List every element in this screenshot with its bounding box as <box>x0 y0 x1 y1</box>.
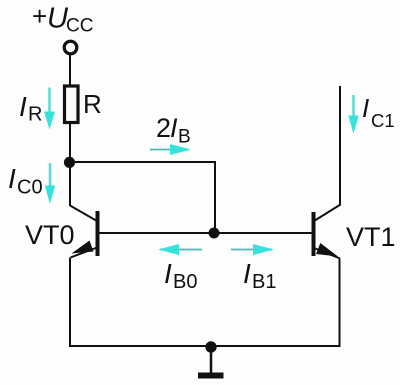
svg-text:C1: C1 <box>371 110 395 131</box>
transistor VT1 collector diagonal <box>314 205 341 222</box>
wire VT1 collector up <box>339 86 341 205</box>
supply terminal circle <box>64 41 77 54</box>
svg-text:CC: CC <box>66 16 93 37</box>
svg-text:VT1: VT1 <box>346 222 396 252</box>
label I_B1 <box>243 258 276 293</box>
resistor R <box>65 86 79 123</box>
label I_C1 <box>362 93 395 131</box>
node B junction dot (base node) <box>209 228 220 239</box>
current arrow I_R <box>44 88 55 130</box>
current arrow I_B0 <box>158 244 202 255</box>
svg-text:C0: C0 <box>17 177 43 199</box>
current arrow I_B1 <box>231 244 274 255</box>
transistor VT0 emitter arrowhead <box>72 241 94 254</box>
wire node A to base node (2Ib path) <box>70 162 215 233</box>
base wire VT0 to VT1 <box>98 232 312 234</box>
transistor VT0 emitter diagonal <box>71 248 98 258</box>
svg-text:B1: B1 <box>252 271 276 293</box>
current arrow I_C0 <box>45 163 55 204</box>
label I_R <box>19 91 42 126</box>
svg-text:VT0: VT0 <box>25 220 75 250</box>
svg-text:+: + <box>32 1 47 31</box>
svg-text:I: I <box>170 113 178 143</box>
ground stub wire <box>210 347 213 373</box>
svg-text:R: R <box>28 104 42 126</box>
transistor VT0 base bar <box>96 211 100 256</box>
svg-text:B: B <box>178 127 191 148</box>
wire terminal to resistor <box>69 55 71 86</box>
svg-text:B0: B0 <box>173 271 197 293</box>
svg-text:I: I <box>243 258 251 289</box>
ground node dot <box>205 341 216 352</box>
svg-text:I: I <box>19 91 27 122</box>
transistor VT1 emitter diagonal <box>314 248 340 259</box>
transistor VT0 collector diagonal <box>70 206 97 222</box>
svg-text:2: 2 <box>156 113 171 143</box>
label I_B0 <box>164 258 197 293</box>
current arrow 2Ib <box>150 144 191 155</box>
transistor VT1 base bar <box>312 212 316 256</box>
supply label +Ucc <box>32 1 93 37</box>
wire VT1 emitter down <box>339 259 341 348</box>
wire node A down to VT0 collector <box>69 162 71 206</box>
bottom rail wire <box>69 345 341 347</box>
svg-text:I: I <box>362 93 369 123</box>
wire resistor to node A <box>69 123 71 163</box>
node A junction dot <box>64 157 75 168</box>
svg-text:I: I <box>164 258 172 289</box>
label 2Ib <box>156 113 191 148</box>
label I_C0 <box>8 163 43 199</box>
current arrow I_C1 <box>348 95 358 134</box>
ground symbol bar <box>198 373 224 379</box>
svg-text:R: R <box>83 89 102 119</box>
wire VT0 emitter down <box>69 258 71 348</box>
transistor VT1 emitter arrowhead <box>316 243 338 257</box>
svg-text:I: I <box>8 163 16 194</box>
